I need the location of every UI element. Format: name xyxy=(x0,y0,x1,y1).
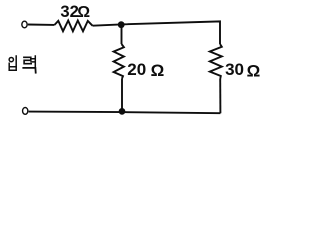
wire R2 to node B xyxy=(121,79,123,109)
wire R1 to node A xyxy=(93,25,119,26)
력: ㅕ xyxy=(31,56,35,66)
wire T1 to R1 xyxy=(28,24,55,26)
label 입력 (hand-drawn Hangul: input) xyxy=(9,56,36,73)
svg-text:32: 32 xyxy=(60,2,78,21)
wire R3 to bottom-right corner xyxy=(219,79,221,113)
terminal T1 (top-left input) xyxy=(22,21,27,28)
bottom wire (corner to node B to T2) xyxy=(29,112,221,114)
svg-text:Ω: Ω xyxy=(151,61,165,80)
력: ㄹ xyxy=(24,57,31,63)
junction node A (top) xyxy=(118,21,125,28)
resistor R3 30ohm (vertical zigzag) xyxy=(210,44,222,79)
력: ㄱ xyxy=(23,68,35,73)
junction node B (bottom) xyxy=(119,108,126,115)
입: ㅣ vertical merged with ㅂ right side xyxy=(15,56,17,70)
resistor R1 32ohm (horizontal zigzag) xyxy=(55,21,93,32)
wire node A to top-right corner xyxy=(124,21,220,44)
resistor R2 20ohm (vertical zigzag) xyxy=(114,44,124,79)
입: ㅇ circle xyxy=(9,57,13,61)
svg-text:20: 20 xyxy=(127,60,146,79)
svg-text:Ω: Ω xyxy=(77,4,90,21)
svg-text:Ω: Ω xyxy=(247,61,261,80)
svg-text:30: 30 xyxy=(225,60,244,79)
입: ㅂ box xyxy=(9,63,16,70)
terminal T2 (bottom-left input) xyxy=(23,108,28,115)
wire node A down to R2 xyxy=(121,27,123,44)
